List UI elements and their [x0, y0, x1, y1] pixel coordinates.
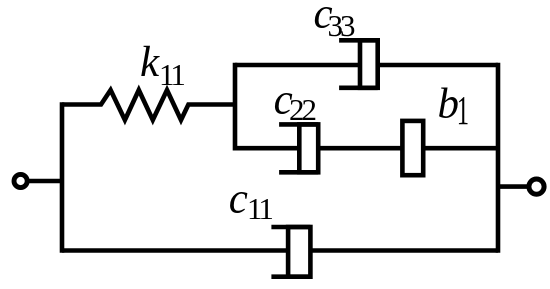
- right terminal circle: [529, 179, 544, 194]
- damper C22: [279, 124, 318, 172]
- wire right rail to right terminal: [498, 184, 528, 189]
- svg-text:k: k: [140, 39, 160, 86]
- svg-text:b: b: [438, 80, 460, 127]
- wire left terminal to left rail: [28, 179, 62, 184]
- wire middle branch: [235, 146, 498, 151]
- wire spring branch with spring k11: [62, 90, 235, 120]
- svg-text:22: 22: [289, 92, 316, 127]
- svg-text:1: 1: [457, 89, 469, 134]
- svg-text:11: 11: [247, 191, 272, 226]
- mass block B1: [402, 121, 423, 175]
- wire top branch: [235, 63, 498, 68]
- damper C33: [339, 40, 378, 88]
- left terminal circle: [14, 174, 27, 187]
- svg-text:c: c: [229, 175, 248, 222]
- right rail wire: [496, 65, 501, 251]
- damper C11: [271, 227, 310, 277]
- wire bottom branch: [62, 248, 498, 253]
- junction bar node A: [233, 65, 238, 148]
- svg-text:33: 33: [328, 8, 356, 43]
- svg-text:11: 11: [159, 57, 184, 92]
- left rail wire: [60, 105, 65, 251]
